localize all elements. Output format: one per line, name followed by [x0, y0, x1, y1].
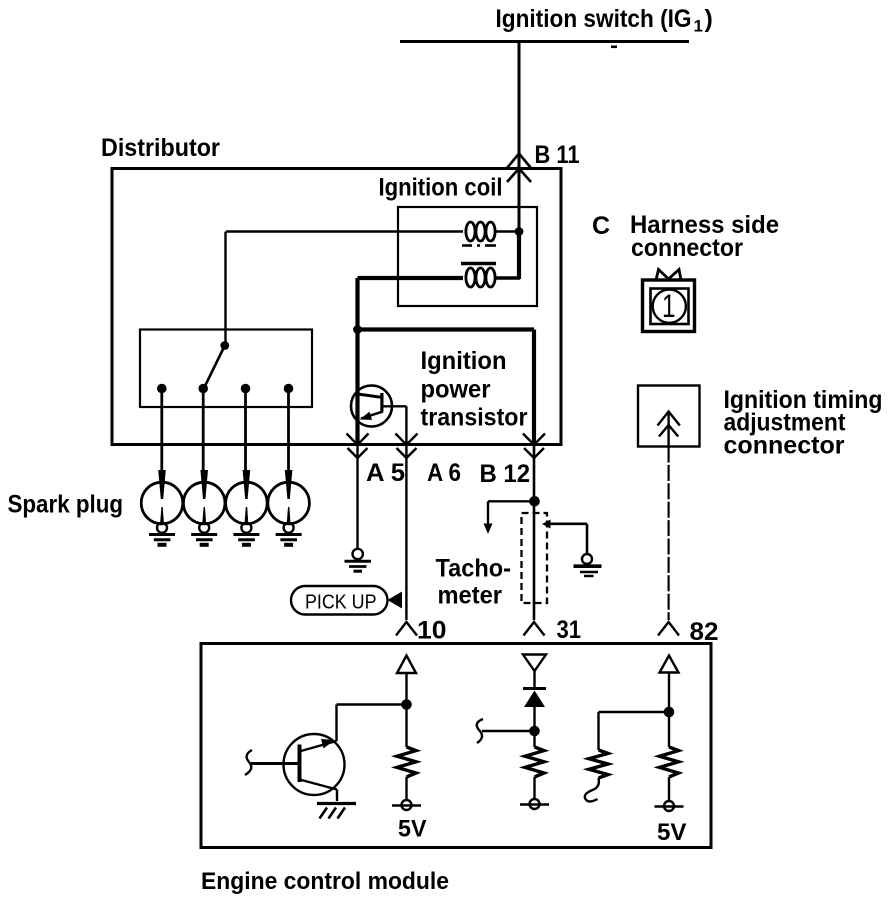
svg-text:C: C — [592, 212, 610, 240]
svg-text:Ignition coil: Ignition coil — [379, 174, 503, 202]
svg-text:Ignition: Ignition — [421, 347, 507, 375]
svg-text:10: 10 — [417, 617, 447, 645]
svg-text:meter: meter — [438, 582, 503, 610]
svg-text:Ignition switch (IG: Ignition switch (IG — [496, 5, 692, 33]
svg-text:connector: connector — [631, 234, 743, 262]
svg-text:Engine control module: Engine control module — [201, 868, 449, 895]
svg-text:5V: 5V — [398, 816, 427, 843]
svg-text:): ) — [705, 5, 713, 33]
svg-text:1: 1 — [662, 288, 676, 324]
svg-text:power: power — [421, 376, 491, 404]
svg-text:B 11: B 11 — [535, 141, 580, 169]
svg-text:1: 1 — [694, 17, 703, 36]
svg-text:Distributor: Distributor — [101, 134, 220, 162]
svg-text:31: 31 — [557, 616, 582, 644]
svg-text:Tacho-: Tacho- — [436, 555, 512, 583]
svg-text:B 12: B 12 — [480, 460, 531, 488]
svg-text:A 5: A 5 — [366, 459, 405, 487]
svg-text:Spark plug: Spark plug — [8, 491, 124, 519]
svg-text:A 6: A 6 — [427, 459, 461, 487]
svg-text:82: 82 — [690, 618, 719, 646]
svg-text:5V: 5V — [657, 819, 687, 846]
svg-text:PICK UP: PICK UP — [305, 592, 377, 614]
svg-text:transistor: transistor — [421, 404, 528, 432]
svg-text:connector: connector — [724, 432, 845, 460]
